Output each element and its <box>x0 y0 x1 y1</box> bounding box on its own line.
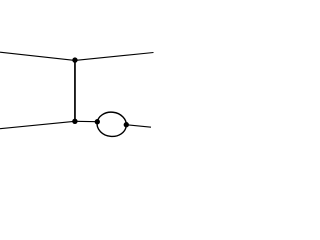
wire bottom propagator segment <box>75 120 97 122</box>
wire bottom-right external leg <box>126 125 151 128</box>
node top vertex <box>72 57 77 62</box>
wire top-left external leg <box>0 52 75 60</box>
wire vertical propagator <box>74 60 76 121</box>
wire top-right external leg <box>75 53 154 61</box>
wire bottom-left external leg <box>0 121 75 128</box>
node loop left vertex <box>95 119 100 124</box>
loop bubble <box>96 111 128 138</box>
node bottom vertex <box>72 119 77 124</box>
node loop right vertex <box>124 122 129 127</box>
